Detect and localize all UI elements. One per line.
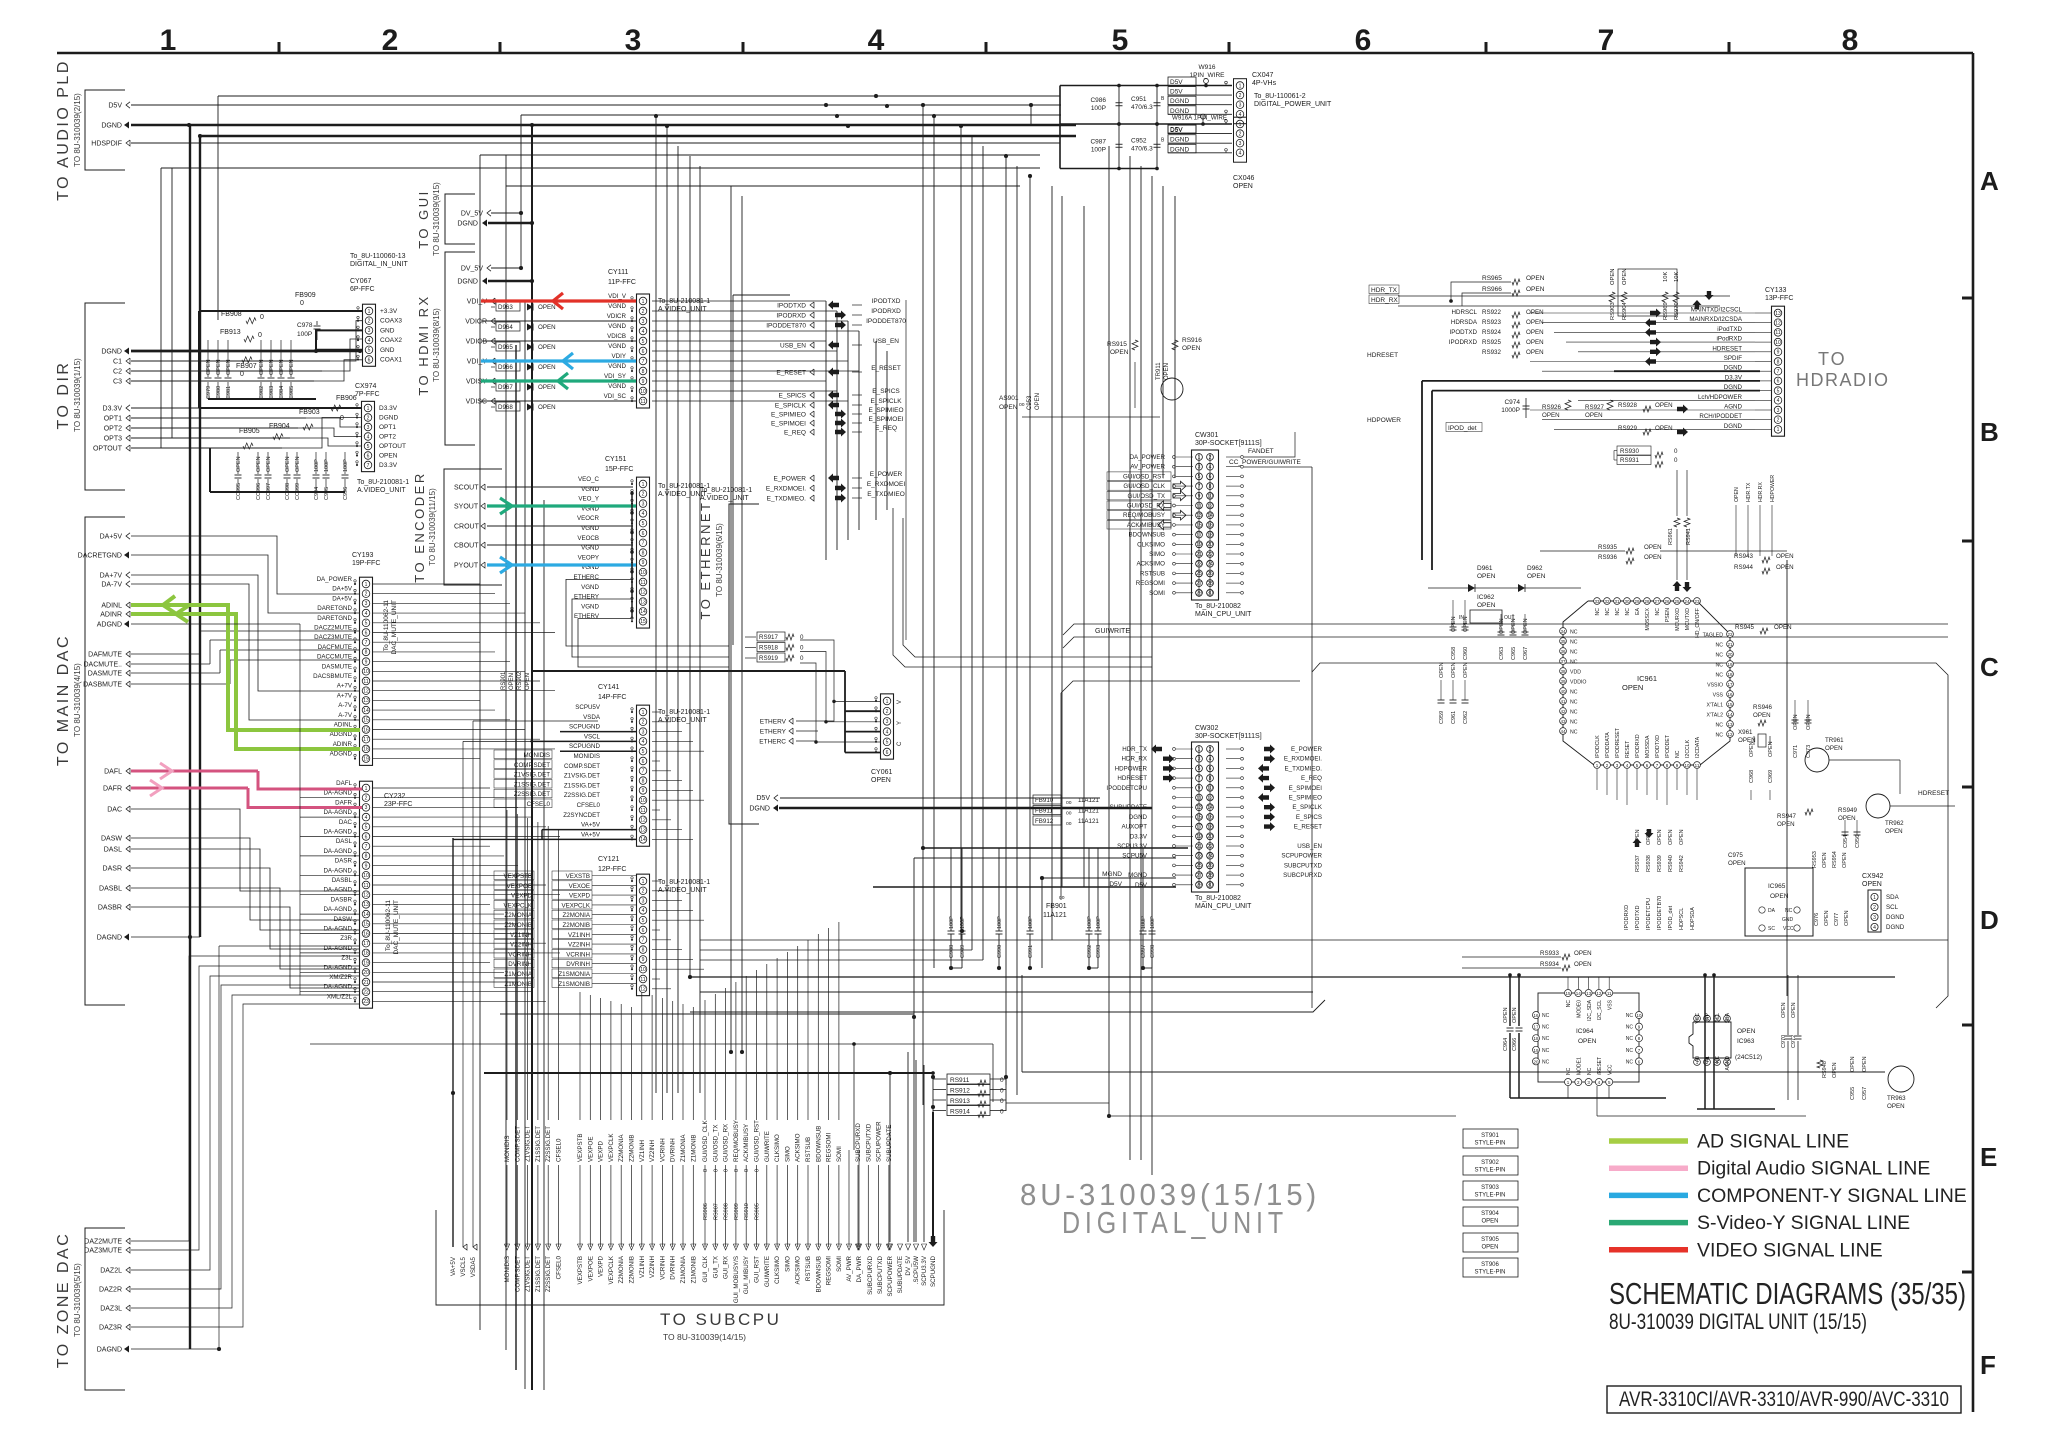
svg-text:D5V: D5V — [1170, 89, 1183, 96]
svg-text:HDRSDA: HDRSDA — [1451, 319, 1478, 326]
svg-text:7: 7 — [365, 640, 368, 646]
svg-text:GUI/OSD_RST: GUI/OSD_RST — [1123, 473, 1165, 480]
svg-text:6: 6 — [886, 750, 889, 756]
svg-text:33: 33 — [1594, 599, 1600, 604]
svg-text:OPTOUT: OPTOUT — [93, 446, 123, 453]
svg-text:TO ZONE DAC: TO ZONE DAC — [55, 1232, 72, 1369]
svg-text:ADGND: ADGND — [330, 751, 353, 758]
svg-text:WP: WP — [1705, 1012, 1711, 1021]
svg-text:VCC: VCC — [1695, 1013, 1701, 1024]
svg-text:11A121: 11A121 — [1078, 808, 1099, 815]
svg-text:1: 1 — [1239, 83, 1242, 89]
svg-text:5: 5 — [365, 825, 368, 831]
svg-text:11: 11 — [1607, 991, 1612, 996]
svg-text:DA-7V: DA-7V — [101, 582, 122, 589]
svg-text:28: 28 — [1644, 599, 1650, 604]
svg-text:BDOWNSUB: BDOWNSUB — [1129, 532, 1165, 539]
svg-text:HD_ON/OFF: HD_ON/OFF — [1695, 608, 1701, 638]
svg-text:RS903: RS903 — [1610, 302, 1616, 320]
svg-text:6: 6 — [642, 928, 645, 934]
svg-text:TO GUI: TO GUI — [416, 189, 431, 249]
svg-text:DASMUTE: DASMUTE — [88, 671, 123, 678]
svg-text:TO SUBCPU: TO SUBCPU — [660, 1310, 781, 1329]
svg-text:X'TAL2: X'TAL2 — [1707, 713, 1724, 719]
svg-text:C1: C1 — [113, 359, 122, 366]
svg-text:HDR_RX: HDR_RX — [1371, 297, 1398, 304]
svg-text:GUI_RST: GUI_RST — [754, 1256, 761, 1283]
svg-text:DA-AGND: DA-AGND — [323, 790, 352, 797]
svg-text:OPEN: OPEN — [538, 324, 556, 331]
svg-text:0: 0 — [300, 300, 304, 307]
svg-text:MGND: MGND — [1102, 871, 1122, 878]
svg-text:ETHERC: ETHERC — [759, 739, 786, 746]
svg-text:IPOD_det: IPOD_det — [1448, 425, 1477, 432]
svg-text:TO AUDIO PLD: TO AUDIO PLD — [55, 59, 72, 201]
svg-text:FB909: FB909 — [295, 292, 316, 299]
svg-text:SCPUPOWER: SCPUPOWER — [876, 1121, 883, 1162]
svg-text:DGND: DGND — [1724, 423, 1743, 430]
svg-text:HDRESET: HDRESET — [1117, 775, 1147, 782]
svg-text:IPODRXD: IPODRXD — [1624, 905, 1630, 930]
svg-text:RS905: RS905 — [755, 1203, 761, 1220]
svg-text:VA+5V: VA+5V — [450, 1256, 457, 1276]
svg-text:ST901: ST901 — [1481, 1133, 1499, 1139]
svg-text:3: 3 — [625, 24, 642, 57]
svg-text:C977: C977 — [1834, 913, 1840, 926]
svg-text:13: 13 — [1775, 311, 1781, 317]
svg-text:AV_POWER: AV_POWER — [1130, 464, 1165, 471]
svg-text:19: 19 — [363, 960, 369, 966]
svg-text:HDR_TX: HDR_TX — [1122, 746, 1147, 753]
svg-text:12: 12 — [640, 818, 646, 824]
svg-text:C993: C993 — [1096, 945, 1102, 958]
svg-text:Z2SYNCDET: Z2SYNCDET — [563, 812, 600, 819]
svg-text:VIDEO SIGNAL LINE: VIDEO SIGNAL LINE — [1697, 1239, 1883, 1261]
svg-text:NC: NC — [1595, 608, 1601, 616]
svg-text:RS969: RS969 — [1663, 302, 1669, 320]
svg-text:SUBUPDATE: SUBUPDATE — [886, 1125, 893, 1162]
svg-text:8: 8 — [642, 369, 645, 375]
svg-text:7: 7 — [642, 938, 645, 944]
svg-text:18: 18 — [363, 951, 369, 957]
svg-text:11A121: 11A121 — [1078, 818, 1099, 825]
svg-text:Z1VSIG.DET: Z1VSIG.DET — [564, 773, 600, 780]
svg-text:OPEN: OPEN — [1451, 616, 1457, 632]
svg-text:CLKSIMO: CLKSIMO — [774, 1134, 781, 1162]
svg-text:OPEN: OPEN — [1770, 893, 1789, 900]
svg-text:(24C512): (24C512) — [1735, 1054, 1762, 1061]
svg-text:ETHERV: ETHERV — [760, 719, 787, 726]
svg-text:DASBMUTE: DASBMUTE — [83, 682, 122, 689]
svg-text:Z2MONIB: Z2MONIB — [629, 1134, 636, 1162]
svg-text:MODE0: MODE0 — [1577, 1000, 1583, 1018]
svg-text:MCUTXD: MCUTXD — [1685, 608, 1691, 630]
svg-text:XML/Z2L: XML/Z2L — [327, 993, 353, 1000]
svg-text:A0: A0 — [1695, 1056, 1701, 1062]
svg-text:OPEN: OPEN — [1825, 745, 1843, 752]
svg-text:RS918: RS918 — [759, 645, 778, 652]
svg-text:11: 11 — [1775, 330, 1780, 336]
svg-text:D5V: D5V — [1170, 127, 1183, 134]
svg-text:6: 6 — [642, 759, 645, 765]
svg-text:AV_PWR: AV_PWR — [846, 1255, 853, 1281]
svg-text:9: 9 — [1777, 350, 1780, 356]
svg-text:IC963: IC963 — [1737, 1038, 1755, 1045]
svg-text:C990: C990 — [997, 945, 1003, 958]
svg-text:6: 6 — [368, 357, 371, 363]
svg-text:C976: C976 — [1814, 913, 1820, 926]
svg-text:E_TXDMIEO.: E_TXDMIEO. — [767, 496, 807, 503]
svg-text:RS924: RS924 — [1482, 329, 1501, 336]
svg-text:TO: TO — [1818, 349, 1847, 369]
svg-text:4: 4 — [642, 329, 645, 335]
svg-text:PYOUT: PYOUT — [454, 563, 479, 570]
svg-text:E_SPICLK: E_SPICLK — [1292, 804, 1322, 811]
svg-text:OPEN: OPEN — [279, 359, 285, 375]
svg-text:1: 1 — [368, 309, 371, 315]
svg-text:Digital Audio SIGNAL LINE: Digital Audio SIGNAL LINE — [1697, 1158, 1930, 1180]
svg-text:7: 7 — [367, 463, 370, 469]
svg-text:29: 29 — [1634, 599, 1640, 604]
svg-text:VZ2INH: VZ2INH — [510, 942, 532, 949]
svg-text:14: 14 — [1727, 712, 1733, 717]
svg-text:TO 8U-310039(4/15): TO 8U-310039(4/15) — [73, 663, 82, 737]
svg-text:3: 3 — [642, 319, 645, 325]
svg-text:DAZ2R: DAZ2R — [99, 1287, 122, 1294]
svg-text:OPEN: OPEN — [1035, 393, 1041, 410]
svg-text:VEXPD: VEXPD — [511, 893, 533, 900]
svg-text:I2CDATA: I2CDATA — [1695, 736, 1701, 758]
svg-text:oo: oo — [1019, 402, 1025, 408]
svg-text:OPEN: OPEN — [538, 384, 556, 391]
svg-text:SDA: SDA — [1725, 1012, 1731, 1023]
svg-text:Z2MONIA: Z2MONIA — [618, 1134, 625, 1162]
svg-text:RS936: RS936 — [1598, 554, 1617, 561]
svg-text:2: 2 — [642, 720, 645, 726]
svg-text:DIGITAL_POWER_UNIT: DIGITAL_POWER_UNIT — [1254, 101, 1332, 108]
svg-text:C989: C989 — [960, 945, 966, 958]
svg-text:iPodRXD: iPodRXD — [1717, 336, 1743, 343]
svg-text:4: 4 — [642, 511, 645, 517]
svg-text:Z2MONIB: Z2MONIB — [562, 922, 590, 929]
svg-text:Z1VSIG.DET: Z1VSIG.DET — [525, 1126, 532, 1162]
svg-text:11: 11 — [1695, 763, 1700, 768]
svg-text:11P-FFC: 11P-FFC — [608, 279, 636, 286]
svg-text:C959: C959 — [1439, 711, 1445, 724]
svg-text:RS928: RS928 — [1618, 402, 1637, 409]
svg-text:11: 11 — [640, 808, 645, 814]
svg-text:C966: C966 — [1512, 1038, 1518, 1051]
svg-text:AVR-3310CI/AVR-3310/AVR-990/AV: AVR-3310CI/AVR-3310/AVR-990/AVC-3310 — [1619, 1388, 1949, 1411]
svg-text:DA-AGND: DA-AGND — [323, 926, 352, 933]
svg-text:OPEN: OPEN — [1832, 1062, 1838, 1078]
svg-text:IPODTXD: IPODTXD — [1655, 735, 1661, 758]
svg-text:Z1MONIA: Z1MONIA — [504, 971, 532, 978]
svg-text:CW302: CW302 — [1195, 725, 1218, 732]
svg-text:FB903: FB903 — [299, 409, 320, 416]
svg-text:SPDIF: SPDIF — [1724, 355, 1742, 362]
svg-text:4: 4 — [886, 729, 889, 735]
svg-text:19P-FFC: 19P-FFC — [352, 560, 380, 567]
svg-text:TR963: TR963 — [1887, 1095, 1906, 1102]
svg-text:C956: C956 — [1855, 835, 1861, 848]
svg-text:DA+7V: DA+7V — [100, 573, 123, 580]
svg-text:0: 0 — [744, 1169, 750, 1172]
svg-text:24: 24 — [1684, 599, 1690, 604]
svg-text:470/6.3: 470/6.3 — [1131, 104, 1153, 111]
svg-text:RS970: RS970 — [1674, 302, 1680, 320]
svg-text:DGND: DGND — [1129, 814, 1148, 821]
svg-text:C957: C957 — [1862, 1087, 1868, 1100]
svg-text:OPEN: OPEN — [1737, 1028, 1756, 1035]
svg-text:DAFL: DAFL — [336, 780, 352, 787]
svg-text:OPEN: OPEN — [1768, 741, 1774, 757]
svg-text:OPEN: OPEN — [1749, 741, 1755, 757]
svg-text:To_8U-110062-11: To_8U-110062-11 — [383, 600, 390, 651]
svg-text:DAC_MUTE_UNIT: DAC_MUTE_UNIT — [391, 600, 398, 655]
svg-text:CY061: CY061 — [871, 769, 893, 776]
svg-text:30: 30 — [1624, 599, 1630, 604]
svg-text:To_8U-210081-1: To_8U-210081-1 — [658, 879, 710, 886]
svg-text:NC: NC — [1716, 643, 1724, 649]
svg-text:DGND: DGND — [379, 415, 398, 422]
svg-text:CY151: CY151 — [605, 456, 627, 463]
svg-text:16: 16 — [1533, 1013, 1539, 1018]
svg-text:RS949: RS949 — [1838, 807, 1857, 814]
svg-text:STYLE-PIN: STYLE-PIN — [1474, 1168, 1505, 1174]
svg-text:HDR.RX: HDR.RX — [1758, 482, 1764, 502]
svg-text:HDR_TX: HDR_TX — [1371, 287, 1398, 294]
svg-text:OPEN: OPEN — [1668, 829, 1674, 845]
svg-text:7: 7 — [365, 844, 368, 850]
svg-text:16: 16 — [363, 931, 369, 937]
svg-text:SIMO: SIMO — [784, 1256, 791, 1272]
svg-text:VCRINH: VCRINH — [659, 1138, 666, 1162]
svg-text:15P-FFC: 15P-FFC — [605, 466, 633, 473]
svg-text:VDICR: VDICR — [465, 319, 487, 326]
svg-text:14: 14 — [640, 837, 646, 843]
svg-text:C3: C3 — [113, 379, 122, 386]
svg-text:NC: NC — [1626, 1025, 1634, 1031]
svg-text:TO 8U-310039(14/15): TO 8U-310039(14/15) — [663, 1332, 746, 1342]
svg-text:DAZ3MUTE: DAZ3MUTE — [84, 1248, 122, 1255]
svg-text:HDRSCL: HDRSCL — [1452, 309, 1478, 316]
svg-text:11: 11 — [640, 399, 645, 405]
svg-text:3: 3 — [1239, 103, 1242, 109]
svg-text:C964: C964 — [1503, 1038, 1509, 1051]
svg-text:RS939: RS939 — [1657, 855, 1663, 872]
svg-text:C981: C981 — [226, 386, 232, 399]
svg-text:DAZ3R: DAZ3R — [99, 1325, 122, 1332]
svg-text:11A121: 11A121 — [1043, 912, 1067, 919]
svg-text:17: 17 — [363, 941, 369, 947]
svg-text:VEXPD: VEXPD — [598, 1140, 605, 1162]
svg-text:DGND: DGND — [749, 806, 770, 813]
svg-text:10: 10 — [640, 967, 646, 973]
svg-text:12: 12 — [640, 987, 646, 993]
svg-text:DAZ2L: DAZ2L — [100, 1268, 122, 1275]
svg-text:OPEN: OPEN — [289, 359, 295, 375]
svg-text:5: 5 — [642, 521, 645, 527]
svg-text:RS923: RS923 — [1482, 319, 1501, 326]
svg-text:MOSSDA: MOSSDA — [1645, 735, 1651, 758]
svg-text:DARETGND: DARETGND — [317, 615, 352, 622]
svg-text:3: 3 — [1873, 915, 1876, 921]
svg-text:SUBCPUTXD: SUBCPUTXD — [865, 1123, 872, 1162]
svg-text:0: 0 — [755, 1169, 761, 1172]
svg-text:TO 8U-310039(8/15): TO 8U-310039(8/15) — [432, 308, 441, 382]
svg-text:10: 10 — [640, 570, 646, 576]
svg-text:NC: NC — [1716, 733, 1724, 739]
svg-text:To_8U-210082: To_8U-210082 — [1195, 603, 1241, 610]
svg-text:2: 2 — [367, 415, 370, 421]
svg-text:20: 20 — [363, 970, 369, 976]
svg-text:SCPU5V: SCPU5V — [1122, 853, 1148, 860]
svg-text:2: 2 — [1873, 905, 1876, 911]
svg-text:E_RESET: E_RESET — [776, 370, 806, 377]
svg-text:Z1MONIB: Z1MONIB — [690, 1256, 697, 1284]
svg-text:SYOUT: SYOUT — [454, 504, 479, 511]
svg-text:EA: EA — [1635, 607, 1641, 614]
svg-text:IC962: IC962 — [1477, 594, 1495, 601]
svg-text:OPEN: OPEN — [1463, 616, 1469, 632]
svg-text:RS935: RS935 — [1598, 544, 1617, 551]
svg-text:VCRINH: VCRINH — [508, 951, 532, 958]
svg-text:COMP.SDET: COMP.SDET — [564, 763, 600, 770]
svg-text:OPEN: OPEN — [999, 404, 1018, 411]
svg-text:11: 11 — [640, 580, 645, 586]
svg-text:12: 12 — [363, 689, 369, 695]
svg-text:GUI_MOBUSY/S: GUI_MOBUSY/S — [733, 1256, 740, 1303]
svg-text:44: 44 — [1560, 729, 1566, 734]
svg-text:0: 0 — [734, 1169, 740, 1172]
svg-text:RSTSUB: RSTSUB — [805, 1256, 812, 1281]
svg-text:DAFR: DAFR — [103, 786, 122, 793]
svg-text:19: 19 — [1727, 662, 1733, 667]
svg-text:NC: NC — [1605, 608, 1611, 616]
svg-text:4: 4 — [642, 739, 645, 745]
svg-text:1: 1 — [1873, 895, 1876, 901]
svg-text:VSCL5: VSCL5 — [460, 1256, 467, 1276]
svg-text:OPEN: OPEN — [1793, 714, 1799, 730]
svg-text:OPEN: OPEN — [1777, 821, 1795, 828]
svg-text:TAGLED: TAGLED — [1703, 633, 1724, 639]
svg-text:XM/Z2R: XM/Z2R — [329, 974, 352, 981]
svg-text:CW301: CW301 — [1195, 432, 1218, 439]
svg-text:9: 9 — [642, 560, 645, 566]
svg-text:1: 1 — [1777, 427, 1780, 433]
svg-text:1: 1 — [160, 24, 177, 57]
svg-text:STYLE-PIN: STYLE-PIN — [1474, 1270, 1505, 1276]
svg-text:VZ2INH: VZ2INH — [649, 1140, 656, 1162]
svg-text:To_8U-110061-2: To_8U-110061-2 — [1254, 93, 1306, 100]
svg-text:OPEN: OPEN — [538, 404, 556, 411]
svg-text:OPEN: OPEN — [538, 364, 556, 371]
svg-text:RS938: RS938 — [1646, 855, 1652, 872]
svg-text:VSCL: VSCL — [584, 733, 601, 740]
svg-text:IPOD_det: IPOD_det — [1668, 905, 1674, 930]
svg-text:6: 6 — [367, 453, 370, 459]
svg-text:GUIWRITE: GUIWRITE — [764, 1256, 771, 1287]
svg-text:VEO_C: VEO_C — [578, 476, 600, 483]
svg-text:OPEN: OPEN — [1523, 618, 1529, 634]
svg-text:E_TXDMIEO: E_TXDMIEO — [867, 491, 905, 498]
svg-text:4: 4 — [368, 338, 371, 344]
svg-text:7: 7 — [642, 359, 645, 365]
svg-text:A-7V: A-7V — [338, 702, 353, 709]
svg-text:2: 2 — [365, 592, 368, 598]
svg-text:37: 37 — [1560, 659, 1566, 664]
svg-text:1: 1 — [642, 879, 645, 885]
svg-text:OPEN: OPEN — [1110, 349, 1129, 356]
svg-text:VZ1INH: VZ1INH — [639, 1140, 646, 1162]
svg-text:E_RESET: E_RESET — [1294, 824, 1322, 831]
svg-text:VSDA: VSDA — [583, 714, 601, 721]
svg-text:FB912: FB912 — [1035, 818, 1054, 825]
svg-text:Lch/HDPOWER: Lch/HDPOWER — [1698, 394, 1743, 401]
svg-text:GUI/OSD_TX: GUI/OSD_TX — [712, 1125, 719, 1162]
svg-text:SCPUPOWER: SCPUPOWER — [887, 1255, 894, 1296]
svg-text:E_SPICS: E_SPICS — [779, 393, 807, 400]
svg-text:39: 39 — [1560, 679, 1566, 684]
svg-text:C980: C980 — [216, 386, 222, 399]
svg-text:DAGND: DAGND — [97, 1347, 122, 1354]
svg-text:STYLE-PIN: STYLE-PIN — [1474, 1141, 1505, 1147]
svg-text:To_8U-210081-1: To_8U-210081-1 — [700, 487, 752, 494]
svg-text:OPEN: OPEN — [1644, 554, 1662, 561]
svg-text:13: 13 — [1586, 991, 1592, 996]
svg-text:HDPSDA: HDPSDA — [1690, 907, 1696, 930]
svg-text:C963: C963 — [1499, 647, 1505, 660]
svg-text:14: 14 — [640, 609, 646, 615]
svg-text:/RESET: /RESET — [1597, 1057, 1603, 1075]
svg-text:100P: 100P — [1091, 105, 1106, 112]
svg-text:GUI_MIBUSY: GUI_MIBUSY — [743, 1256, 750, 1294]
svg-text:To_8U-210082: To_8U-210082 — [1195, 895, 1241, 902]
svg-text:DVRINH: DVRINH — [670, 1256, 677, 1280]
svg-text:2: 2 — [1239, 131, 1242, 137]
svg-text:VGND: VGND — [608, 303, 626, 310]
svg-text:CY232: CY232 — [384, 793, 406, 800]
svg-text:DAFL: DAFL — [104, 769, 122, 776]
svg-text:NC: NC — [1570, 640, 1578, 646]
svg-text:3: 3 — [365, 601, 368, 607]
svg-text:9: 9 — [365, 659, 368, 665]
svg-text:100P: 100P — [1087, 916, 1093, 929]
svg-text:ADGND: ADGND — [97, 622, 122, 629]
svg-text:CX942: CX942 — [1862, 873, 1884, 880]
svg-text:RS902: RS902 — [517, 671, 523, 690]
svg-text:D3.3V: D3.3V — [103, 406, 123, 413]
svg-text:RS933: RS933 — [1540, 950, 1559, 957]
svg-text:A1: A1 — [1705, 1056, 1711, 1062]
svg-text:OPEN: OPEN — [256, 456, 262, 472]
svg-text:RS944: RS944 — [1734, 564, 1753, 571]
svg-text:C988: C988 — [949, 945, 955, 958]
svg-text:DASBL: DASBL — [332, 877, 353, 884]
svg-text:6: 6 — [1777, 379, 1780, 385]
svg-text:C952: C952 — [1131, 137, 1147, 144]
svg-text:0: 0 — [240, 371, 244, 378]
svg-text:VEXPOE: VEXPOE — [587, 1137, 594, 1162]
svg-text:23: 23 — [363, 999, 369, 1005]
svg-text:OPEN: OPEN — [1503, 1007, 1509, 1023]
svg-text:REQ/MOBUSY: REQ/MOBUSY — [733, 1120, 740, 1162]
svg-text:VEO_Y: VEO_Y — [578, 496, 599, 503]
svg-text:OPEN: OPEN — [538, 344, 556, 351]
svg-text:1: 1 — [642, 299, 645, 305]
svg-text:VEXPCLK: VEXPCLK — [608, 1255, 615, 1284]
